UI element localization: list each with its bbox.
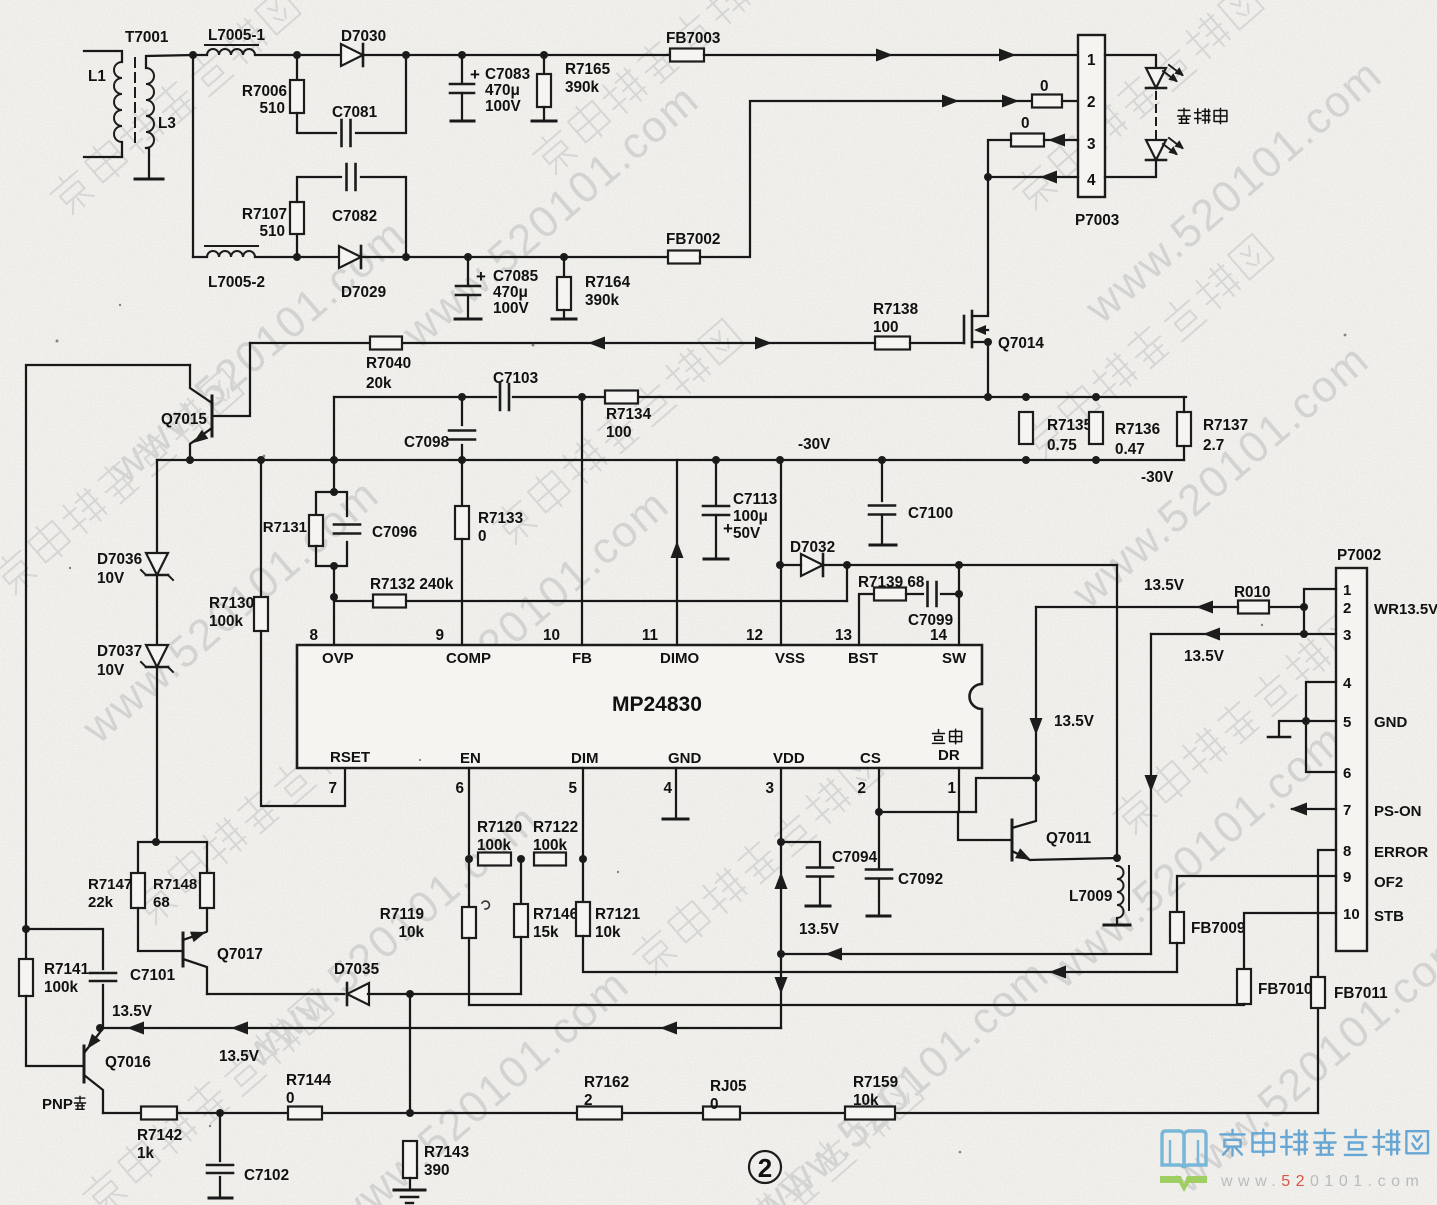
wire VDD down to 13.5V node xyxy=(780,842,782,1028)
svg-text:R7121: R7121 xyxy=(595,906,641,923)
svg-text:R7136: R7136 xyxy=(1115,421,1160,438)
svg-text:CS: CS xyxy=(860,750,881,767)
svg-text:C7099: C7099 xyxy=(908,612,953,629)
wire 13.5V feed down to Q7011 collector node xyxy=(1035,607,1037,778)
svg-text:100V: 100V xyxy=(493,300,530,317)
svg-text:1: 1 xyxy=(1087,52,1096,69)
node R7164 top xyxy=(560,253,568,261)
svg-text:OVP: OVP xyxy=(322,650,354,667)
wire gate drive rail xyxy=(250,342,875,344)
svg-text:100μ: 100μ xyxy=(733,508,768,525)
svg-text:C7096: C7096 xyxy=(372,524,417,541)
svg-text:0: 0 xyxy=(710,1096,719,1113)
node VSS / D7032 anode xyxy=(776,561,784,569)
svg-text:R7147: R7147 xyxy=(88,876,132,893)
svg-text:5: 5 xyxy=(1343,714,1351,731)
svg-text:13.5V: 13.5V xyxy=(1184,648,1225,665)
capacitor C7100 xyxy=(881,460,883,501)
node R7136 top xyxy=(1092,393,1100,401)
wire -30V upper rail xyxy=(334,396,496,398)
svg-text:Q7016: Q7016 xyxy=(105,1054,151,1071)
svg-text:R7120: R7120 xyxy=(477,819,522,836)
node CS junction xyxy=(875,808,883,816)
svg-text:D7035: D7035 xyxy=(334,961,380,978)
wire junction down to R7143 xyxy=(409,994,411,1113)
svg-text:10V: 10V xyxy=(97,662,125,679)
svg-text:12: 12 xyxy=(746,627,763,644)
wire pin 4 with left arrow xyxy=(988,176,1078,178)
capacitor C7094 xyxy=(781,842,820,867)
node VDD xyxy=(777,838,785,846)
label lamp connector (Chinese: lamp socket bar) xyxy=(1178,108,1191,123)
wire R7132 line to BST jog xyxy=(334,600,373,602)
svg-text:C7113: C7113 xyxy=(733,491,777,508)
svg-text:10k: 10k xyxy=(853,1092,879,1109)
resistor R7143 390 xyxy=(403,1141,417,1178)
wire BST pin 13 to R7139 xyxy=(859,594,874,645)
svg-text:PS-ON: PS-ON xyxy=(1374,803,1422,820)
svg-text:100: 100 xyxy=(873,319,899,336)
svg-text:13: 13 xyxy=(835,627,852,644)
wire xyxy=(193,54,207,56)
svg-text:R7143: R7143 xyxy=(424,1144,469,1161)
svg-text:FB7002: FB7002 xyxy=(666,231,720,248)
wire pin2 line xyxy=(1269,606,1304,608)
node A main junction xyxy=(189,51,197,59)
resistor R7136 0.47 xyxy=(1089,412,1103,444)
inductor L1 primary winding xyxy=(84,51,122,62)
svg-text:9: 9 xyxy=(1343,869,1351,886)
svg-text:1: 1 xyxy=(947,780,956,797)
svg-text:390k: 390k xyxy=(565,79,600,96)
svg-text:10k: 10k xyxy=(595,924,621,941)
svg-text:L7005-2: L7005-2 xyxy=(208,274,265,291)
svg-text:R7122: R7122 xyxy=(533,819,578,836)
logo book icon xyxy=(1162,1131,1206,1168)
svg-text:510: 510 xyxy=(259,100,285,117)
svg-text:DR: DR xyxy=(938,747,960,764)
svg-text:PNP: PNP xyxy=(42,1096,73,1113)
wire DIMO pin 11 up to rail with arrow xyxy=(676,460,678,645)
svg-text:R7162: R7162 xyxy=(584,1074,629,1091)
wire EN pin 6 down xyxy=(468,768,470,907)
node VSS branch xyxy=(776,456,784,464)
wire xyxy=(193,256,207,258)
svg-text:R7107: R7107 xyxy=(242,206,287,223)
svg-text:8: 8 xyxy=(1343,843,1351,860)
resistor R7133 0 xyxy=(461,460,463,506)
svg-text:FB7003: FB7003 xyxy=(666,30,720,47)
svg-text:14: 14 xyxy=(930,627,948,644)
node R7165 top xyxy=(540,51,548,59)
node Q7011 collector feed xyxy=(1032,774,1040,782)
svg-text:22k: 22k xyxy=(88,894,114,911)
svg-text:9: 9 xyxy=(435,627,444,644)
svg-text:2.7: 2.7 xyxy=(1203,437,1224,454)
capacitor C7082 xyxy=(347,164,356,190)
wire CS pin 2 stub xyxy=(878,768,880,812)
svg-text:R7134: R7134 xyxy=(606,406,652,423)
svg-text:L7005-1: L7005-1 xyxy=(208,27,265,44)
transistor Q7016 PNP xyxy=(83,1046,86,1082)
svg-text:3: 3 xyxy=(765,780,774,797)
svg-text:10: 10 xyxy=(1343,906,1360,923)
node C7098 top xyxy=(458,393,466,401)
wire pin7 PS-ON with arrow xyxy=(1292,808,1336,810)
svg-text:DIMO: DIMO xyxy=(660,650,699,667)
node EN xyxy=(465,855,473,863)
resistor R7159 10k xyxy=(845,1107,895,1120)
svg-text:DIM: DIM xyxy=(571,750,599,767)
resistor R7119 10k xyxy=(462,907,476,938)
node pin3 junction xyxy=(1300,630,1308,638)
page number 2 circled xyxy=(749,1151,781,1183)
svg-text:C7101: C7101 xyxy=(130,967,176,984)
svg-text:D7030: D7030 xyxy=(341,28,386,45)
wire R7130 to RSET pin 7 xyxy=(261,631,345,806)
svg-text:13.5V: 13.5V xyxy=(219,1048,260,1065)
node C7102 top xyxy=(216,1109,224,1117)
node R7132 junction xyxy=(330,593,338,601)
wire pin9 OF2 to FB7009 xyxy=(1177,876,1336,912)
svg-text:R7165: R7165 xyxy=(565,61,611,78)
svg-text:R7132 240k: R7132 240k xyxy=(370,576,454,593)
wire FB7002 up to P7003 pin 2 xyxy=(700,101,1032,257)
svg-text:Q7011: Q7011 xyxy=(1046,830,1092,847)
transistor Q7011 NPN xyxy=(1011,820,1014,860)
resistor R7040 20k xyxy=(370,337,402,350)
wire pin10 STB to FB7010 xyxy=(1244,913,1336,969)
node C7083 top xyxy=(458,51,466,59)
capacitor C7113 100u 50V xyxy=(715,460,717,506)
arrow right on pin1 wire xyxy=(876,49,893,62)
wire 13.5V line with arrows xyxy=(100,1027,781,1029)
svg-text:2: 2 xyxy=(1087,94,1096,111)
svg-text:C7092: C7092 xyxy=(898,871,943,888)
svg-text:R7135: R7135 xyxy=(1047,417,1093,434)
svg-text:L7009: L7009 xyxy=(1069,888,1112,905)
capacitor C7092 xyxy=(878,812,880,869)
svg-text:BST: BST xyxy=(848,650,878,667)
wire pin2 13.5V line to left xyxy=(1036,606,1238,608)
node R7107 bottom xyxy=(293,253,301,261)
node R7133 top xyxy=(458,456,466,464)
node FB line xyxy=(578,393,586,401)
arrow right on pin1 wire 2 xyxy=(999,49,1016,62)
svg-text:R7164: R7164 xyxy=(585,274,631,291)
wire second output rail xyxy=(406,256,668,258)
pin DR label (Chinese boost DR) xyxy=(933,729,945,743)
svg-text:0.75: 0.75 xyxy=(1047,437,1077,454)
svg-text:C7102: C7102 xyxy=(244,1167,289,1184)
node R7135 bottom xyxy=(1022,456,1030,464)
node OVP branch xyxy=(330,456,338,464)
node R7135 top xyxy=(1022,393,1030,401)
svg-text:1: 1 xyxy=(1343,582,1351,599)
svg-text:FB7009: FB7009 xyxy=(1191,920,1245,937)
wire OVP pin stub xyxy=(333,597,335,645)
resistor R7147 22k xyxy=(138,842,156,873)
arrow left on gate rail xyxy=(588,337,605,350)
svg-text:4: 4 xyxy=(1087,172,1096,189)
wire bottom rail up to FB7011 xyxy=(1317,1008,1319,1113)
ground at IC pin 4 xyxy=(675,768,677,818)
arrow right on gate rail xyxy=(755,337,772,350)
resistor R7121 10k xyxy=(576,902,590,936)
svg-text:7: 7 xyxy=(328,780,337,797)
svg-text:5: 5 xyxy=(568,780,577,797)
node R7130 top xyxy=(257,456,265,464)
wire xyxy=(156,576,158,644)
svg-text:C7083: C7083 xyxy=(485,66,530,83)
svg-text:100k: 100k xyxy=(209,613,244,630)
wire R7119 bottom to long rail xyxy=(469,938,1242,1005)
svg-text:R7141: R7141 xyxy=(44,961,90,978)
node after D7029 xyxy=(402,253,410,261)
svg-text:11: 11 xyxy=(642,627,659,644)
node C7085 top xyxy=(464,253,472,261)
svg-text:ERROR: ERROR xyxy=(1374,844,1428,861)
resistor R7162 2 xyxy=(577,1107,622,1120)
node 13.5V mid xyxy=(777,950,785,958)
node Q7015 emitter xyxy=(186,456,194,464)
svg-text:2: 2 xyxy=(1343,600,1351,617)
svg-text:4: 4 xyxy=(1343,675,1352,692)
svg-text:C7081: C7081 xyxy=(332,104,378,121)
svg-text:6: 6 xyxy=(455,780,464,797)
wire left rail end down to zeners xyxy=(156,460,158,552)
wire down to R7132 node xyxy=(333,566,335,597)
capacitor C7098 xyxy=(461,397,463,425)
wire OVP branch xyxy=(333,397,335,492)
node C7100 top xyxy=(878,456,886,464)
svg-text:C7094: C7094 xyxy=(832,849,878,866)
svg-text:EN: EN xyxy=(460,750,481,767)
svg-text:R7138: R7138 xyxy=(873,301,919,318)
svg-text:13.5V: 13.5V xyxy=(799,921,840,938)
svg-text:510: 510 xyxy=(259,223,285,240)
capacitor C7099 xyxy=(906,593,923,595)
transistor Q7014 N-MOSFET xyxy=(963,316,966,343)
resistor R7107 510 xyxy=(296,234,298,257)
svg-text:100V: 100V xyxy=(485,98,522,115)
inductor L3 secondary winding xyxy=(146,68,154,148)
node 13.5V left end xyxy=(96,1024,104,1032)
resistor R7135 0.75 xyxy=(1019,412,1033,444)
wire xyxy=(356,55,406,133)
svg-text:D7029: D7029 xyxy=(341,284,386,301)
resistor RJ05 0 xyxy=(703,1107,740,1120)
resistor R7146 15k xyxy=(520,859,522,904)
node R7006 top xyxy=(293,51,301,59)
wire mid rail -30V lower xyxy=(157,459,1184,461)
wire pin3 feed down and left xyxy=(1150,634,1152,954)
LED 2 of lamp bar xyxy=(1146,140,1166,160)
svg-text:6: 6 xyxy=(1343,765,1351,782)
LED 1 of lamp bar xyxy=(1105,55,1156,66)
node pin3/pin4 junction xyxy=(984,173,992,181)
wire pin3 line xyxy=(1151,633,1336,635)
svg-text:R7159: R7159 xyxy=(853,1074,898,1091)
scan speckles xyxy=(56,340,59,343)
svg-text:MP24830: MP24830 xyxy=(612,693,702,716)
svg-text:0: 0 xyxy=(478,528,487,545)
svg-text:15k: 15k xyxy=(533,924,559,941)
svg-text:68: 68 xyxy=(153,894,170,911)
svg-text:C7082: C7082 xyxy=(332,208,377,225)
wire pin3 with left arrow xyxy=(1044,139,1078,141)
node R7131/C7096 bottom xyxy=(330,562,338,570)
svg-text:10: 10 xyxy=(543,627,560,644)
node R7136 bottom xyxy=(1092,456,1100,464)
svg-text:COMP: COMP xyxy=(446,650,491,667)
svg-text:R010: R010 xyxy=(1234,584,1271,601)
wire FB7010 bottom joins long rail xyxy=(1243,1004,1245,1005)
wire R7147 to Q7017 base xyxy=(138,908,183,951)
capacitor C7081 xyxy=(342,120,351,146)
svg-text:OF2: OF2 xyxy=(1374,874,1403,891)
svg-text:13.5V: 13.5V xyxy=(1054,713,1095,730)
node after D7030 xyxy=(402,51,410,59)
wire pin1/CS link web xyxy=(976,778,1036,812)
svg-text:390k: 390k xyxy=(585,292,620,309)
svg-text:R7148: R7148 xyxy=(153,876,197,893)
svg-text:Q7014: Q7014 xyxy=(998,335,1044,352)
wire R7121 bottom to FB7009 line xyxy=(583,936,1177,972)
svg-text:R7146: R7146 xyxy=(533,906,578,923)
svg-text:T7001: T7001 xyxy=(125,29,169,46)
ground below L3 xyxy=(135,178,163,181)
ferrite bead FB7011 xyxy=(1311,977,1325,1008)
wire pin3 resistor to node xyxy=(988,140,1011,177)
wire pin8 ERROR down to FB7011 xyxy=(1318,850,1336,977)
arrow right on pin2 wire xyxy=(942,95,959,108)
svg-text:C7085: C7085 xyxy=(493,268,539,285)
wire to R7146 bottom xyxy=(410,993,521,995)
inductor L7009 xyxy=(1117,866,1124,918)
IC U1 MP24830 xyxy=(297,645,982,768)
node C7099 right xyxy=(955,590,963,598)
svg-text:FB7010: FB7010 xyxy=(1258,981,1312,998)
wire zener chain down to R7147/R7148 node xyxy=(156,668,158,842)
node D7035 line junction xyxy=(406,990,414,998)
svg-text:-30V: -30V xyxy=(798,436,831,453)
svg-text:8: 8 xyxy=(309,627,318,644)
wire junction down to second branch xyxy=(192,55,194,257)
svg-text:R7137: R7137 xyxy=(1203,417,1248,434)
svg-text:Q7017: Q7017 xyxy=(217,946,263,963)
svg-text:C7100: C7100 xyxy=(908,505,953,522)
resistor R7134 100 xyxy=(605,391,638,404)
wire P7003 node down to Q7014 drain xyxy=(987,177,989,313)
wire FB7009 bottom xyxy=(1176,943,1178,972)
svg-text:3: 3 xyxy=(1087,136,1096,153)
svg-text:L3: L3 xyxy=(158,115,176,132)
wire R7146 bottom to D7035 line xyxy=(520,937,522,994)
resistor R7137 2.7 xyxy=(1177,412,1191,446)
arrow right on pin2 wire 2 xyxy=(1002,95,1019,108)
svg-text:7: 7 xyxy=(1343,802,1351,819)
node SW pin link xyxy=(955,561,963,569)
node Q7011 emitter / L7009 top xyxy=(1113,854,1121,862)
wire DIM pin 5 down xyxy=(582,768,584,902)
resistor R7165 390k xyxy=(543,55,545,74)
node pin2 junction xyxy=(1300,603,1308,611)
connector P7003 xyxy=(1078,35,1105,197)
svg-text:R7130: R7130 xyxy=(209,595,254,612)
svg-text:10V: 10V xyxy=(97,570,125,587)
svg-text:SW: SW xyxy=(942,650,967,667)
wire pins 4-6 bracket xyxy=(1306,682,1336,772)
svg-text:+: + xyxy=(470,65,480,84)
svg-text:RSET: RSET xyxy=(330,749,370,766)
svg-text:10k: 10k xyxy=(398,924,424,941)
zener diode D7037 10V xyxy=(146,645,168,667)
wire R7141 bottom to Q7016 base xyxy=(26,996,84,1066)
wire COMP pin stub xyxy=(461,539,463,645)
svg-text:R7133: R7133 xyxy=(478,510,523,527)
svg-text:D7037: D7037 xyxy=(97,643,142,660)
svg-text:0: 0 xyxy=(1040,78,1049,95)
logo site name text (Chinese) xyxy=(1220,1130,1244,1156)
zener diode D7036 10V xyxy=(146,553,168,575)
ferrite bead FB7009 xyxy=(1170,912,1184,943)
svg-text:470μ: 470μ xyxy=(493,284,528,301)
svg-text:13.5V: 13.5V xyxy=(112,1003,153,1020)
transistor Q7015 NPN xyxy=(214,343,250,416)
wire VDD pin 3 down xyxy=(780,768,782,842)
ferrite bead FB7010 xyxy=(1237,969,1251,1004)
wire to P7003 pin 1 xyxy=(704,54,1078,56)
svg-text:100: 100 xyxy=(606,424,632,441)
svg-text:R7131: R7131 xyxy=(263,519,307,536)
wire Q7017 collector line xyxy=(207,993,344,995)
svg-text:1k: 1k xyxy=(137,1145,155,1162)
svg-text:0: 0 xyxy=(1021,115,1030,132)
resistor R7130 100k xyxy=(260,460,262,597)
svg-text:R7006: R7006 xyxy=(242,83,287,100)
wire 13.5V right link xyxy=(781,953,1151,955)
wire SW pin stub xyxy=(958,565,960,645)
transformer core xyxy=(134,58,136,147)
svg-text:-30V: -30V xyxy=(1141,469,1174,486)
svg-text:R7142: R7142 xyxy=(137,1127,182,1144)
svg-text:13.5V: 13.5V xyxy=(1144,577,1185,594)
svg-text:VSS: VSS xyxy=(775,650,805,667)
svg-text:0.47: 0.47 xyxy=(1115,441,1145,458)
wire xyxy=(297,113,336,133)
arrow left on FB7009 line xyxy=(1049,966,1066,979)
resistor R7131 xyxy=(316,492,334,515)
node R7143 top xyxy=(406,1109,414,1117)
svg-text:WR13.5V: WR13.5V xyxy=(1374,601,1437,618)
wire FB pin 10 up to R7134 node xyxy=(581,397,583,645)
capacitor C7096 xyxy=(334,492,347,516)
svg-text:C7098: C7098 xyxy=(404,434,450,451)
svg-text:4: 4 xyxy=(663,780,672,797)
svg-text:P7002: P7002 xyxy=(1337,547,1381,564)
node R7131/C7096 top xyxy=(330,488,338,496)
svg-text:R7040: R7040 xyxy=(366,355,411,372)
wire top output rail xyxy=(406,54,670,56)
svg-text:2: 2 xyxy=(758,1153,772,1183)
svg-text:FB7011: FB7011 xyxy=(1334,985,1388,1002)
wire SW line down to L7009 xyxy=(1116,565,1118,858)
resistor R7006 xyxy=(296,55,298,80)
resistor R7141 100k xyxy=(25,929,27,959)
wire pin1 jumper to pin2 line xyxy=(1304,589,1336,634)
wire bottom rail xyxy=(103,1112,1318,1114)
